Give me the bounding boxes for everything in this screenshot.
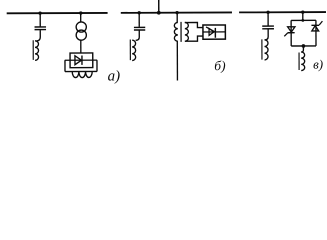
wire: bus C to capacitor C3: [267, 12, 269, 25]
transformer T1 (two-winding, circles): [76, 22, 86, 32]
core of reactor L1: [32, 40, 34, 60]
diode VD1 anode/cathode line: [65, 59, 97, 61]
node: bottom of thyristor loop: [302, 44, 306, 48]
bus A (AC busbar): [7, 12, 108, 14]
svg-text:а): а): [108, 68, 121, 84]
wire: transformer T2 primary tail to rail: [176, 41, 178, 80]
core of reactor L4: [298, 52, 300, 69]
thyristor VS2 cathode bar: [288, 32, 295, 34]
wire: bus C to thyristor loop: [302, 12, 304, 20]
thyristor VS3 cathode bar: [311, 24, 319, 26]
wire: capacitor C3 to reactor L3 (with hook bend): [265, 29, 268, 40]
reactor L2 (filter inductor winding, 3 arcs): [132, 40, 136, 60]
wire: left branch of loop: [290, 20, 292, 46]
wire: bus A to transformer T1: [80, 13, 82, 22]
wire: capacitor C2 to reactor L2 (with hook bend): [136, 30, 140, 40]
core of transformer T2: [180, 22, 182, 42]
wire: secondary bottom lead to converter box: [185, 36, 203, 41]
thyristor VS1 cathode bar: [214, 28, 216, 38]
thyristor VS1 anode/cathode line: [203, 31, 225, 33]
wire: right branch of loop: [315, 20, 317, 46]
bus C (AC busbar): [239, 11, 326, 13]
wire: bottom baseline of rectifier unit: [65, 70, 97, 72]
wire: right AC stub of rectifier unit: [96, 60, 98, 71]
node: top of thyristor loop: [301, 19, 304, 22]
controlled rectifier unit U2 (box): [203, 25, 225, 39]
wire: top rail of thyristor loop: [291, 19, 316, 21]
wire: secondary top lead to converter box: [185, 22, 203, 27]
transformer T2 secondary winding (3 arcs, bulge right): [185, 22, 189, 41]
capacitor C1 (filter capacitor, plates): [35, 26, 46, 28]
wire: loop bottom to reactor L4 (with hook bend): [301, 46, 303, 52]
core of reactor L3: [261, 39, 263, 59]
wire: bottom rail of thyristor loop: [291, 45, 316, 47]
node: junction of transformer branch with bus B: [175, 11, 178, 14]
thyristor VS2 (triangle, pointing down): [288, 27, 295, 32]
capacitor C2 (filter capacitor, plates): [134, 26, 145, 28]
reactor L3 (filter inductor winding, 3 arcs): [264, 40, 268, 60]
svg-text:в): в): [313, 57, 323, 72]
wire: left AC stub of rectifier unit: [64, 60, 66, 71]
reactor L1 (filter inductor winding, 3 arcs): [35, 41, 39, 61]
diode VD1 (triangle): [75, 56, 82, 65]
capacitor C3 (filter capacitor, plates): [262, 25, 274, 27]
feeder line from supply: [158, 0, 160, 13]
thyristor VS1 gate: [206, 27, 214, 32]
reactor L4 (smoothing inductor winding, 3 arcs): [301, 52, 305, 71]
wire: bus B to capacitor C2: [138, 13, 140, 27]
winding of rectifier transformer (3 scallops below box): [72, 71, 92, 77]
node: junction of capacitor branch with bus A: [38, 11, 41, 14]
node: junction of thyristor branch with bus C: [301, 10, 304, 13]
transformer T2 primary winding (3 arcs, bulge left): [174, 22, 178, 41]
wire: capacitor C1 to reactor L1 (with hook bend): [37, 30, 41, 41]
node: junction of transformer branch with bus A: [79, 11, 82, 14]
thyristor VS3 (triangle, pointing up): [312, 26, 319, 31]
node: feeder junction: [157, 11, 161, 15]
thyristor VS2 gate: [284, 33, 288, 37]
wire: bus B to transformer T2 primary: [176, 13, 178, 23]
core of reactor L2: [129, 40, 131, 61]
diode VD1 cathode bar: [81, 56, 83, 65]
svg-text:б): б): [214, 58, 226, 73]
wire: bus A to capacitor C1: [39, 13, 41, 26]
node: junction of capacitor branch with bus B: [137, 11, 140, 14]
node: junction of capacitor branch with bus C: [266, 11, 269, 14]
bus B (AC busbar): [121, 11, 232, 13]
thyristor VS3 gate: [319, 21, 322, 25]
thyristor VS1 (triangle): [209, 28, 214, 35]
wire: transformer T1 to rectifier box: [80, 40, 82, 53]
rectifier unit U1 (box): [70, 53, 93, 68]
